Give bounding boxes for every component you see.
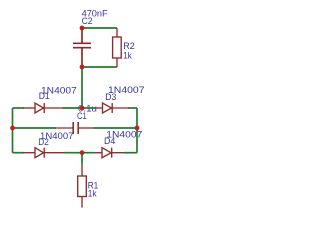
wire: bottom rail of upper loop (node B to R2 bottom corner) [82,66,117,68]
wire: bottom rail segment right of D4 [124,152,137,154]
diode D2 [23,148,64,158]
wire: bridge left vertical [12,108,14,153]
junction node bridge left [10,126,15,131]
svg-text:1k: 1k [123,50,132,61]
diode D4 [95,148,124,158]
svg-text:D3: D3 [105,92,116,103]
wire: middle rail right of C1 [94,127,137,129]
capacitor C1 [55,122,95,134]
junction node on bridge bottom rail [80,150,85,155]
svg-text:D4: D4 [104,136,116,147]
wire: bridge right vertical [136,108,138,153]
wire: from bottom rail node down to R1 [81,153,83,164]
wire: bottom rail segment D2 to D4 [64,152,96,154]
junction node bridge right [135,126,140,131]
svg-text:D1: D1 [39,91,50,102]
wire: vertical from node B down to bridge top rail [81,67,83,108]
diode D3 [95,103,129,113]
junction node A (top of C2/R2 loop) [80,26,85,31]
diode D1 [23,103,62,113]
svg-text:1k: 1k [88,189,97,200]
junction node B (bottom of C2/R2 loop) [80,65,85,70]
svg-text:C1: C1 [77,111,87,122]
resistor R1 [78,164,87,208]
junction node on bridge top rail [80,106,85,111]
resistor R2 [113,28,122,67]
wire: middle rail left of C1 [13,127,57,129]
wire: top rail segment right of D3 [128,107,137,109]
wire: top rail of upper loop (node A to R2 top corner) [82,27,117,29]
wire: top rail segment D1 to D3 [62,107,95,109]
wire: bottom rail segment left of D2 [13,152,25,154]
svg-text:D2: D2 [38,137,49,148]
wire: top rail segment left of D1 [13,107,25,109]
capacitor C2 [73,28,91,67]
svg-text:C2: C2 [82,16,93,27]
